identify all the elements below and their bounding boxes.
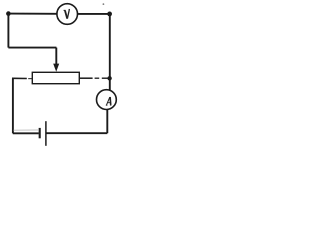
wire top from voltmeter to right node xyxy=(78,13,110,15)
wire rheostat left lead xyxy=(12,77,27,79)
speck artifact xyxy=(103,3,105,5)
wire rheostat right lead (broken scan look) xyxy=(80,77,93,79)
wire from ammeter down to bottom-right corner xyxy=(106,109,108,133)
label V of voltmeter xyxy=(64,9,70,18)
battery short plate (negative) xyxy=(39,128,41,138)
label A of ammeter xyxy=(106,97,112,105)
wire left side vertical from rheostat lead down to bottom corner xyxy=(12,78,14,133)
wire right side vertical down to ammeter xyxy=(109,14,111,90)
node top-right junction xyxy=(107,12,112,17)
wire left side vertical from top node down xyxy=(7,14,9,48)
faint scan smear above bottom wire xyxy=(14,129,39,131)
wire bottom from corner to battery positive plate xyxy=(46,132,107,134)
wire wiper stem vertical xyxy=(55,48,57,65)
battery long plate (positive) xyxy=(45,121,47,146)
wiper arrowhead onto rheostat xyxy=(53,64,59,72)
node top-left junction xyxy=(6,11,11,16)
wire horizontal branch to wiper xyxy=(8,47,56,49)
rheostat body R xyxy=(32,72,79,83)
wire top from left node to voltmeter xyxy=(9,13,57,15)
ammeter A xyxy=(97,90,117,110)
voltmeter V xyxy=(57,4,78,25)
node right junction with rheostat lead xyxy=(107,76,111,80)
wire bottom from battery to bottom-left corner xyxy=(13,132,39,134)
